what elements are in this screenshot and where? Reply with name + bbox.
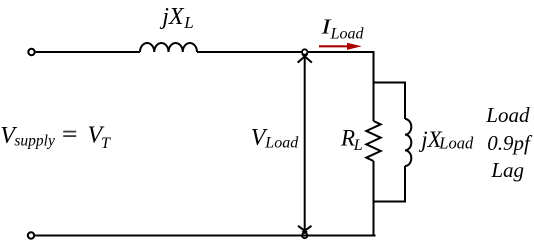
terminal: supply top-left open circle: [28, 49, 34, 55]
wire: parallel stub bottom: [373, 201, 407, 203]
wire: top-left segment from terminal to series inductor: [36, 51, 140, 53]
junction: top V_Load tap (open circle with crossed lines): [298, 49, 312, 62]
svg-text:R: R: [340, 126, 355, 151]
wire: bottom segment from terminal to load corner: [35, 235, 375, 237]
svg-text:Load: Load: [330, 26, 365, 43]
terminal: supply bottom-left open circle: [28, 232, 34, 238]
svg-text:L: L: [353, 137, 363, 154]
inductor jXL (series line reactance, 4 humps): [140, 43, 197, 52]
svg-text:L: L: [183, 13, 193, 32]
wire: right branch lower vertical: [404, 166, 406, 203]
wire: right branch upper vertical: [404, 82, 406, 120]
wire: parallel stub top: [373, 82, 406, 84]
inductor jXLoad (load reactance, 3 bumps bulging right): [405, 119, 411, 166]
svg-text:Lag: Lag: [490, 158, 524, 182]
wire: vertical V_Load measurement wire: [304, 56, 306, 232]
svg-text:Load: Load: [485, 103, 530, 127]
wire: top segment from inductor to load corner: [197, 51, 375, 53]
svg-text:Load: Load: [264, 134, 299, 151]
svg-text:Load: Load: [438, 134, 474, 153]
svg-text:jX: jX: [159, 4, 185, 30]
svg-text:0.9pf: 0.9pf: [487, 131, 533, 155]
junction: bottom V_Load tap (open circle with crossed lines): [298, 226, 312, 238]
current arrow I_Load (red): [319, 43, 362, 50]
resistor RL (vertical zigzag): [366, 121, 380, 161]
svg-text:T: T: [101, 135, 111, 152]
wire: load left branch upper vertical: [373, 51, 375, 121]
svg-text:supply: supply: [14, 133, 55, 150]
wire: load left branch lower vertical: [373, 161, 375, 236]
